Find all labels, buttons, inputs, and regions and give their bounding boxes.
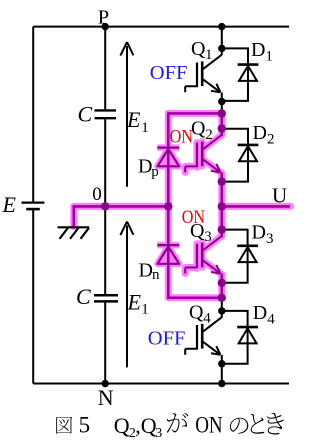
diode D2 branch: [222, 129, 259, 182]
wire clamp vertical glow: [165, 113, 172, 297]
wire device rail: Q1 emitter to Dp node: [221, 93, 223, 114]
svg-text:D: D: [139, 260, 153, 282]
diode D3 branch: [222, 230, 258, 283]
node Q4 collector / D4: [218, 307, 225, 314]
svg-text:N: N: [98, 385, 114, 410]
svg-text:2: 2: [267, 132, 275, 148]
wire left rail upper: [32, 27, 34, 202]
ground: [58, 227, 90, 239]
node N junction mid rail: [102, 380, 109, 387]
diode D4 branch: [222, 311, 258, 364]
svg-text:E: E: [127, 290, 142, 315]
wire mid rail: C1 to 0 node to C2: [104, 119, 106, 294]
wire rail Q2 section glow: [218, 113, 225, 135]
svg-text:Q: Q: [191, 118, 206, 140]
wire mid rail: P to cap C1: [104, 27, 106, 110]
wire Q2 emitter to U junction glow: [218, 173, 225, 206]
node neutral clamp junction: [164, 202, 172, 210]
diode Dn glow: [157, 245, 179, 264]
transistor Q4 (IGBT): [185, 317, 222, 355]
svg-text:1: 1: [141, 120, 149, 136]
svg-text:1: 1: [205, 47, 213, 63]
wire rail through Q2 core: [221, 113, 224, 135]
wire U line glow: [222, 203, 291, 210]
wire neutral 0-line glow: [74, 206, 169, 226]
wire left rail lower: [32, 210, 34, 384]
svg-text:3: 3: [266, 231, 274, 247]
svg-text:OFF: OFF: [150, 62, 188, 84]
svg-text:ON: ON: [195, 413, 223, 438]
node Q4 emitter / D4: [218, 360, 225, 367]
wire Dn bottom horizontal glow: [168, 294, 222, 301]
node Q2 emitter / D2: [218, 177, 226, 185]
node N junction device rail: [218, 380, 225, 387]
が: [167, 413, 188, 433]
node U junction: [218, 202, 226, 210]
svg-text:C: C: [78, 102, 93, 127]
wire device rail: Dn node to Q4: [221, 298, 223, 318]
svg-text:D: D: [138, 156, 152, 178]
node P junction: [102, 23, 109, 30]
arrow E1 top: [120, 42, 133, 187]
svg-text:p: p: [151, 164, 159, 180]
wire device rail: Q4 emitter to N: [221, 355, 223, 384]
transistor Q2 (IGBT, on-path core): [185, 135, 222, 173]
svg-text:ON: ON: [182, 207, 206, 228]
node Q3 emitter / D3: [218, 279, 226, 287]
wire N rail (bottom): [33, 383, 289, 385]
diode Dp glow: [157, 148, 179, 167]
wire Dn bottom horizontal core: [168, 296, 222, 299]
svg-text:1: 1: [265, 49, 273, 65]
capacitor C1: [95, 110, 117, 118]
transistor Q3 (IGBT, on-path core): [185, 236, 222, 274]
と: [251, 414, 265, 434]
transistor Q3 glow: [203, 236, 222, 251]
svg-text:Q: Q: [189, 302, 204, 324]
wire clamp top horizontal core: [168, 112, 222, 115]
svg-text:E: E: [2, 192, 17, 217]
svg-text:P: P: [98, 6, 109, 28]
diode D1 branch: [222, 48, 259, 101]
diode Dn core: [157, 245, 179, 264]
svg-text:ON: ON: [170, 127, 194, 148]
diode Dp core: [157, 148, 179, 167]
node dots black: [102, 23, 226, 387]
svg-text:D: D: [252, 222, 266, 244]
wire clamp top horizontal glow: [168, 110, 222, 117]
svg-text:3: 3: [155, 426, 162, 440]
svg-text:Q: Q: [191, 38, 206, 60]
svg-text:n: n: [152, 267, 160, 283]
battery E: [22, 203, 45, 210]
transistor Q2 glow: [203, 135, 222, 150]
svg-text:U: U: [272, 183, 287, 207]
node Dp clamp junction: [218, 109, 226, 117]
wire neutral 0-line core: [74, 206, 169, 226]
svg-text:5: 5: [79, 413, 91, 438]
svg-text:Q: Q: [141, 413, 157, 438]
transistor Q1 (IGBT): [185, 55, 222, 93]
svg-text:4: 4: [203, 311, 211, 327]
svg-text:C: C: [76, 284, 91, 309]
wire clamp vertical core: [167, 113, 170, 297]
svg-text:4: 4: [267, 312, 275, 328]
node top rail / device rail: [218, 23, 225, 30]
の: [230, 418, 248, 434]
node Q1 emitter / D1: [218, 98, 225, 105]
node Q3 collector / D3: [218, 225, 226, 233]
wire Q3 emitter to Dn junction glow: [218, 275, 225, 298]
svg-text:OFF: OFF: [148, 327, 186, 349]
svg-text:D: D: [253, 302, 267, 324]
svg-text:0: 0: [92, 184, 102, 205]
node Dn clamp junction: [218, 294, 226, 302]
arrow E1 bottom: [120, 222, 133, 368]
き: [267, 413, 284, 435]
node dots purple (on path): [101, 109, 226, 302]
wire P rail (top): [33, 26, 289, 28]
wire device rail: P to Q1: [221, 27, 223, 55]
wire rail Q3 section glow: [218, 206, 225, 236]
wire rail through Q3 core: [221, 206, 224, 236]
wire U line core: [222, 205, 289, 208]
node 0: [101, 202, 109, 210]
capacitor C2: [94, 295, 118, 301]
図: [56, 417, 72, 434]
svg-text:Q: Q: [114, 413, 130, 438]
svg-text:2: 2: [205, 127, 213, 143]
node Q1 collector / D1: [218, 45, 225, 52]
svg-text:3: 3: [204, 229, 212, 245]
svg-text:D: D: [253, 122, 267, 144]
svg-text:E: E: [126, 107, 141, 132]
caption 図: [56, 413, 284, 435]
wire mid rail: C2 to N: [104, 303, 106, 384]
node Q2 collector / D2: [218, 124, 226, 132]
svg-text:D: D: [251, 39, 265, 61]
svg-text:1: 1: [141, 302, 149, 318]
